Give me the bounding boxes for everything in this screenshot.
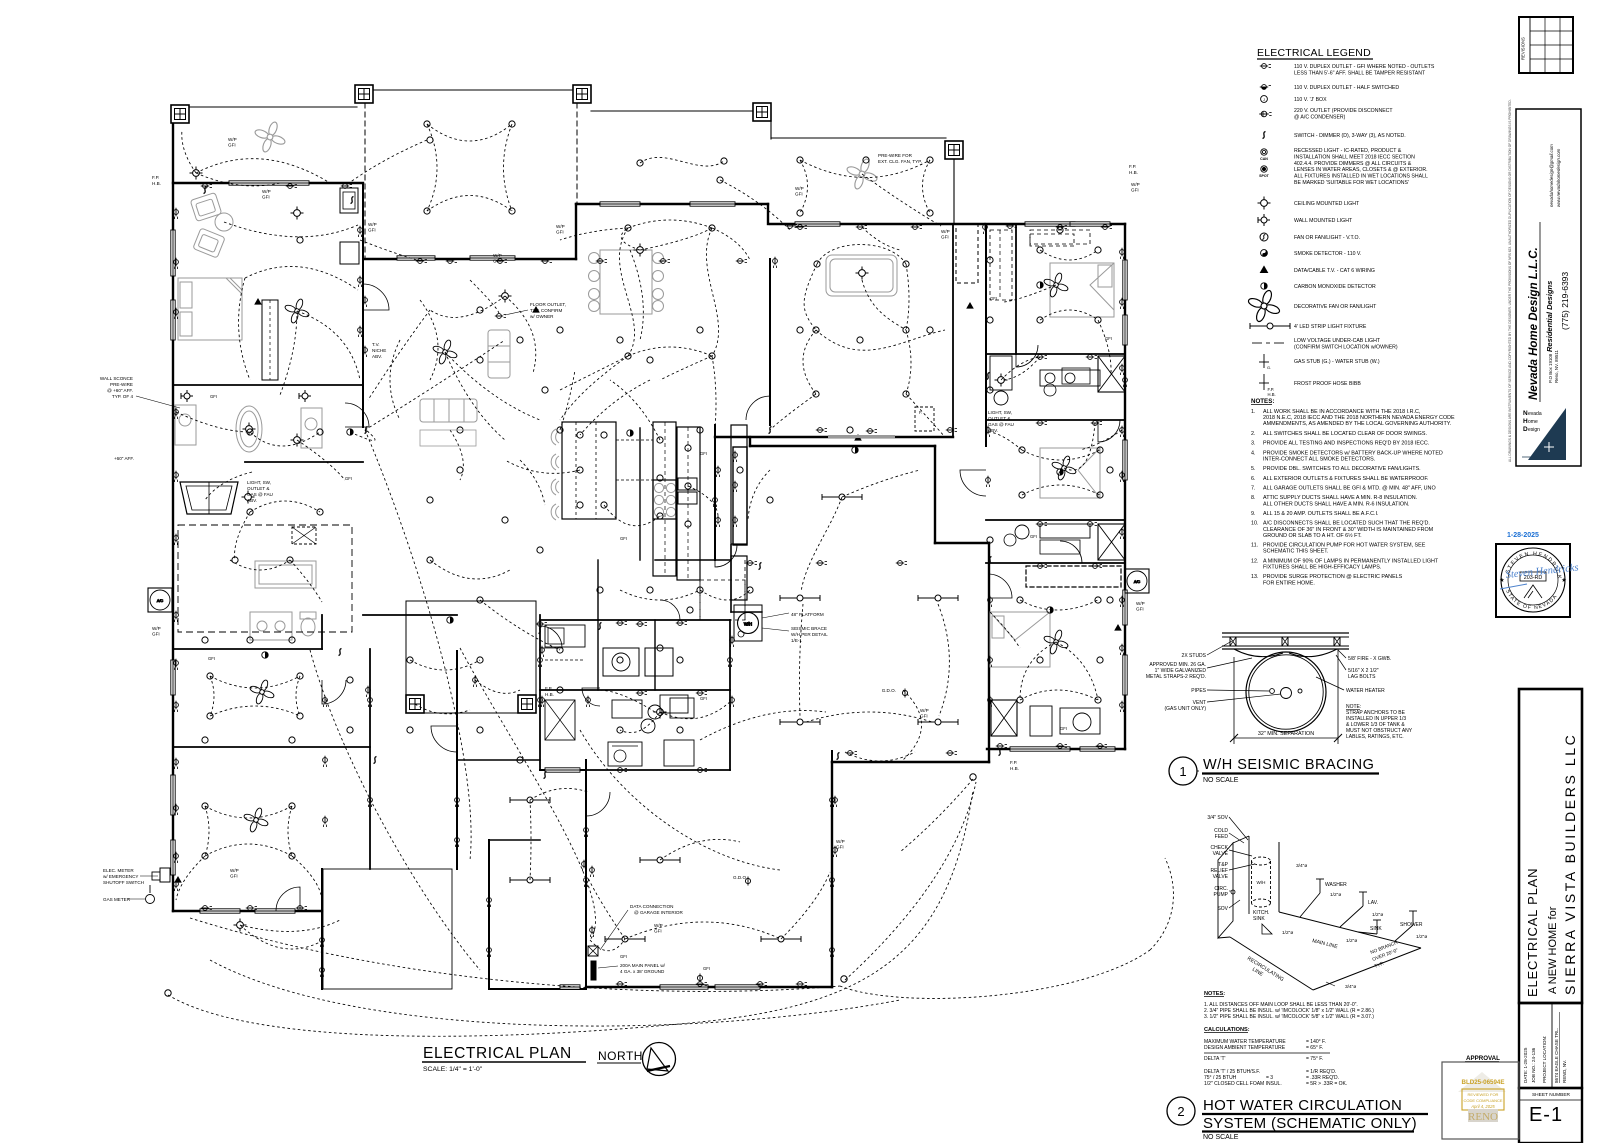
svg-text:W/P: W/P xyxy=(920,708,929,713)
svg-text:LIGHT, SW,: LIGHT, SW, xyxy=(247,480,271,485)
svg-text:W/P: W/P xyxy=(1131,182,1140,187)
svg-text:PUMP: PUMP xyxy=(1214,892,1229,898)
svg-text:J: J xyxy=(1263,97,1265,102)
svg-text:H.B.: H.B. xyxy=(1268,392,1276,397)
svg-text:W/H: W/H xyxy=(1257,880,1266,885)
svg-text:2X STUDS: 2X STUDS xyxy=(1182,653,1207,659)
svg-text:(GAS UNIT ONLY): (GAS UNIT ONLY) xyxy=(1165,706,1207,712)
svg-text:WALL SCONCE: WALL SCONCE xyxy=(100,376,133,381)
iso wall panels xyxy=(1218,843,1233,938)
svg-text:LABLES, RATINGS, ETC.: LABLES, RATINGS, ETC. xyxy=(1346,734,1404,740)
svg-text:F.P.: F.P. xyxy=(1010,760,1017,765)
stamp seal xyxy=(1496,544,1570,617)
svg-text:FROST PROOF HOSE BIBB: FROST PROOF HOSE BIBB xyxy=(1294,381,1361,387)
svg-text:AMMENDMENTS, AS AMENDED BY THE: AMMENDMENTS, AS AMENDED BY THE LOCAL GOV… xyxy=(1263,421,1451,427)
svg-text:ALL SWITCHES SHALL BE LOCATED: ALL SWITCHES SHALL BE LOCATED CLEAR OF D… xyxy=(1263,431,1427,437)
svg-text:GFI: GFI xyxy=(493,259,501,264)
decorative fans xyxy=(284,298,310,324)
ceiling lights xyxy=(190,167,203,180)
svg-text:LESS THAN 5'-6" AFF. SHALL BE: LESS THAN 5'-6" AFF. SHALL BE TAMPER RES… xyxy=(1294,70,1426,76)
svg-text:LAG BOLTS: LAG BOLTS xyxy=(1348,674,1376,680)
A/C units xyxy=(148,588,172,612)
svg-text:ELEC. METER: ELEC. METER xyxy=(103,868,134,873)
bar stools xyxy=(551,429,556,445)
svg-text:SHUTOFF SWITCH: SHUTOFF SWITCH xyxy=(103,880,144,885)
svg-text:CAN: CAN xyxy=(1260,157,1268,161)
detail 2 title xyxy=(1167,1097,1195,1125)
svg-text:W/P: W/P xyxy=(1136,601,1145,606)
svg-text:GFI: GFI xyxy=(1136,607,1144,612)
TV niche cabinet xyxy=(340,188,358,213)
laundry/bath internal detail xyxy=(545,625,585,647)
svg-text:3/4"ø: 3/4"ø xyxy=(1345,984,1356,990)
svg-text:esign: esign xyxy=(1528,427,1540,433)
recessed can lights xyxy=(424,121,430,127)
svg-text:FIXTURES SHALL BE HIGH-EFFICAC: FIXTURES SHALL BE HIGH-EFFICACY LAMPS. xyxy=(1263,565,1381,571)
svg-text:ELECTRICAL LEGEND: ELECTRICAL LEGEND xyxy=(1257,47,1371,59)
W/H circle + platform xyxy=(734,605,762,641)
svg-text:PROVIDE SMOKE DETECTORS w/ BAT: PROVIDE SMOKE DETECTORS w/ BATTERY BACK-… xyxy=(1263,450,1443,456)
svg-text:SCHEMATIC THIS SHEET.: SCHEMATIC THIS SHEET. xyxy=(1263,549,1328,555)
svg-text:A MINIMUM OF 90% OF LAMPS IN P: A MINIMUM OF 90% OF LAMPS IN PERMANENTLY… xyxy=(1263,558,1439,564)
svg-text:JOB NO.: 24-136: JOB NO.: 24-136 xyxy=(1531,1047,1536,1083)
svg-text:BLD25-06594E: BLD25-06594E xyxy=(1462,1079,1505,1086)
svg-text:1/2" CLOSED CELL FOAM INSUL.: 1/2" CLOSED CELL FOAM INSUL. xyxy=(1204,1081,1282,1087)
svg-text:Reno, NV. 89511: Reno, NV. 89511 xyxy=(1554,349,1559,383)
svg-text:SCALE: 1/4" = 1'-0": SCALE: 1/4" = 1'-0" xyxy=(423,1066,483,1073)
smoke detectors xyxy=(347,429,353,435)
svg-text:GFI: GFI xyxy=(654,929,662,934)
svg-text:W/P: W/P xyxy=(152,626,161,631)
north arrow xyxy=(643,1043,676,1076)
svg-text:GAS METER: GAS METER xyxy=(103,897,131,902)
NE bed xyxy=(1050,263,1114,317)
svg-text:(CONFIRM SWITCH LOCATION w/OWN: (CONFIRM SWITCH LOCATION w/OWNER) xyxy=(1294,344,1398,350)
svg-text:PROVIDE DBL. SWITCHES TO ALL D: PROVIDE DBL. SWITCHES TO ALL DECORATIVE … xyxy=(1263,466,1421,472)
svg-text:SHOWER: SHOWER xyxy=(1400,922,1423,928)
svg-text:ALL EXTERIOR OUTLETS & FIXTURE: ALL EXTERIOR OUTLETS & FIXTURES SHALL BE… xyxy=(1263,476,1429,482)
svg-text:ome: ome xyxy=(1528,419,1538,425)
svg-text:WASHER: WASHER xyxy=(1325,882,1347,888)
svg-text:PRE-WIRE FOR: PRE-WIRE FOR xyxy=(878,153,913,158)
svg-text:A/C: A/C xyxy=(157,599,164,603)
svg-text:LIGHT, SW,: LIGHT, SW, xyxy=(988,410,1012,415)
svg-text:P.O Box 19108: P.O Box 19108 xyxy=(1548,353,1553,383)
svg-text:GAS STUB (G.) - WATER STUB (W.: GAS STUB (G.) - WATER STUB (W.) xyxy=(1294,359,1380,365)
svg-text:W/P: W/P xyxy=(556,224,565,229)
svg-text:GFI: GFI xyxy=(620,536,627,541)
front entry door xyxy=(180,482,238,514)
svg-text:1/2"ø: 1/2"ø xyxy=(1282,930,1293,936)
extra outlets xyxy=(446,259,457,264)
svg-text:PROVIDE SURGE PROTECTION @ ELE: PROVIDE SURGE PROTECTION @ ELECTRIC PANE… xyxy=(1263,574,1403,580)
svg-text:SYSTEM (SCHEMATIC ONLY): SYSTEM (SCHEMATIC ONLY) xyxy=(1203,1115,1417,1132)
svg-text:GFI: GFI xyxy=(941,235,949,240)
svg-text:1/2"ø: 1/2"ø xyxy=(1346,938,1357,944)
svg-text:3.: 3. xyxy=(1251,441,1256,447)
svg-text:W/H SEISMIC BRACING: W/H SEISMIC BRACING xyxy=(1203,757,1374,773)
svg-text:W/H: W/H xyxy=(744,622,752,627)
svg-text:NOTES:: NOTES: xyxy=(1251,398,1274,405)
svg-text:CLEARANCE OF 36" IN FRONT & 30: CLEARANCE OF 36" IN FRONT & 30" WIDTH IS… xyxy=(1263,527,1434,533)
svg-text:5.: 5. xyxy=(1251,466,1256,472)
svg-text:ALL 15 & 20 AMP. OUTLETS SHALL: ALL 15 & 20 AMP. OUTLETS SHALL BE A.F.C.… xyxy=(1263,511,1378,517)
svg-text:PROVIDE ALL TESTING AND INSPEC: PROVIDE ALL TESTING AND INSPECTIONS REQ'… xyxy=(1263,441,1429,447)
svg-text:ALL GARAGE OUTLETS SHALL BE GF: ALL GARAGE OUTLETS SHALL BE GFI & MTD. @… xyxy=(1263,486,1436,492)
svg-text:220 V. OUTLET (PROVIDE DISCONN: 220 V. OUTLET (PROVIDE DISCONNECT xyxy=(1294,108,1393,114)
svg-text:1/E-1: 1/E-1 xyxy=(791,638,802,643)
svg-text:3/4"ø: 3/4"ø xyxy=(1296,863,1307,869)
svg-text:W/H PER DETAIL: W/H PER DETAIL xyxy=(791,632,828,637)
svg-text:GFI: GFI xyxy=(620,954,627,959)
svg-text:W/P: W/P xyxy=(836,839,845,844)
data triangles xyxy=(254,298,262,305)
great room rug/table xyxy=(420,430,476,446)
svg-text:GFI: GFI xyxy=(920,714,928,719)
ceiling joists xyxy=(1222,632,1349,634)
svg-text:DELTA 'T': DELTA 'T' xyxy=(1204,1056,1225,1062)
svg-text:ALL WORK SHALL BE IN ACCORDANC: ALL WORK SHALL BE IN ACCORDANCE WITH THE… xyxy=(1263,409,1421,415)
svg-text:W/P: W/P xyxy=(493,253,502,258)
svg-text:W/P: W/P xyxy=(368,222,377,227)
sitting chairs + table top-left xyxy=(190,193,222,222)
svg-text:SMOKE DETECTOR - 110 V.: SMOKE DETECTOR - 110 V. xyxy=(1294,251,1361,257)
svg-text:48" PLATFORM: 48" PLATFORM xyxy=(791,612,824,617)
svg-text:3/4" SOV: 3/4" SOV xyxy=(1207,815,1228,821)
svg-text:DECORATIVE FAN OR FAN/LIGHT: DECORATIVE FAN OR FAN/LIGHT xyxy=(1294,304,1377,310)
svg-text:NO SCALE: NO SCALE xyxy=(1203,777,1239,784)
svg-text:@ GARAGE INTERIOR: @ GARAGE INTERIOR xyxy=(634,910,684,915)
svg-text:NICHE: NICHE xyxy=(372,348,386,353)
svg-text:110 V. DUPLEX OUTLET - GFI WHE: 110 V. DUPLEX OUTLET - GFI WHERE NOTED -… xyxy=(1294,64,1435,70)
tub + fixtures left bath xyxy=(236,406,262,452)
svg-text:1/2"ø: 1/2"ø xyxy=(1416,934,1427,940)
more great room wires xyxy=(420,300,438,380)
entry closet dashed xyxy=(178,525,352,632)
svg-text:GFI: GFI xyxy=(262,195,270,200)
svg-text:F.: F. xyxy=(919,410,922,415)
master tub light xyxy=(243,423,256,436)
patio fan gray xyxy=(254,121,286,153)
svg-text:PROVIDE CIRCULATION PUMP FOR H: PROVIDE CIRCULATION PUMP FOR HOT WATER S… xyxy=(1263,543,1426,549)
svg-text:BE MARKED 'SUITABLE FOR WET LO: BE MARKED 'SUITABLE FOR WET LOCATIONS' xyxy=(1294,180,1409,186)
wire junction nodes xyxy=(970,774,976,780)
svg-text:110 V. 'J' BOX: 110 V. 'J' BOX xyxy=(1294,97,1327,103)
extra cans xyxy=(987,387,993,393)
svg-text:ALL FIXTURES INSTALLED IN WET: ALL FIXTURES INSTALLED IN WET LOCATIONS … xyxy=(1294,174,1428,180)
bedroom4 bed xyxy=(990,612,1050,667)
svg-text:RENO: RENO xyxy=(1468,1111,1498,1123)
svg-text:H.B.: H.B. xyxy=(152,181,161,186)
svg-text:SINK: SINK xyxy=(1370,926,1382,932)
svg-text:H.B.: H.B. xyxy=(1129,170,1138,175)
svg-text:RECESSED LIGHT - IC-RATED, PR: RECESSED LIGHT - IC-RATED, PRODUCT & xyxy=(1294,148,1402,154)
svg-text:= 65° F.: = 65° F. xyxy=(1306,1045,1323,1051)
svg-text:SINK: SINK xyxy=(1253,916,1265,922)
svg-text:OUTLET &: OUTLET & xyxy=(988,416,1010,421)
svg-text:2.: 2. xyxy=(1251,431,1256,437)
svg-text:G.: G. xyxy=(1267,365,1271,370)
svg-text:W/P: W/P xyxy=(262,189,271,194)
garage data + panel xyxy=(588,946,598,956)
svg-text:ALL OTHER DUCTS SHALL HAVE A M: ALL OTHER DUCTS SHALL HAVE A MIN. R-6 IN… xyxy=(1263,501,1409,507)
svg-text:NORTH: NORTH xyxy=(598,1049,643,1063)
svg-text:SWITCH - DIMMER (D), 3-WAY (3): SWITCH - DIMMER (D), 3-WAY (3), AS NOTED… xyxy=(1294,133,1406,139)
detail 1 title xyxy=(1169,757,1197,785)
svg-text:LOW VOLTAGE UNDER-CAB LIGHT: LOW VOLTAGE UNDER-CAB LIGHT xyxy=(1294,338,1381,344)
dim lines xyxy=(1233,657,1235,744)
gdo xyxy=(902,689,907,698)
svg-text:W/P: W/P xyxy=(228,137,237,142)
svg-text:LENSES IN WATER AREAS, CLOSETS: LENSES IN WATER AREAS, CLOSETS & @ EXTER… xyxy=(1294,167,1428,173)
duplex outlets along walls xyxy=(174,208,179,219)
svg-text:E-1: E-1 xyxy=(1529,1104,1563,1126)
svg-text:INSTALLATION SHALL MEET 2018 I: INSTALLATION SHALL MEET 2018 IECC SECTIO… xyxy=(1294,154,1415,160)
straps xyxy=(1234,649,1283,657)
svg-text:TYP. CONFIRM: TYP. CONFIRM xyxy=(530,308,563,313)
windows xyxy=(229,181,309,185)
svg-text:G.D.O.: G.D.O. xyxy=(882,688,896,693)
svg-text:April 4, 2025: April 4, 2025 xyxy=(1470,1104,1495,1109)
svg-text:EXT. CLG. FAN, TYP.: EXT. CLG. FAN, TYP. xyxy=(878,159,922,164)
extra wires xyxy=(365,340,505,430)
svg-text:GFI: GFI xyxy=(836,845,844,850)
svg-text:A/C: A/C xyxy=(1134,580,1141,584)
company box xyxy=(1516,109,1581,466)
svg-text:DATA CONNECTION: DATA CONNECTION xyxy=(630,904,673,909)
svg-text:W/P: W/P xyxy=(654,923,663,928)
svg-text:PRE-WIRE: PRE-WIRE xyxy=(110,382,133,387)
svg-text:METAL STRAPS-2 REQ'D.: METAL STRAPS-2 REQ'D. xyxy=(1146,674,1206,680)
svg-text:GFI: GFI xyxy=(700,451,707,456)
svg-text:APPROVAL: APPROVAL xyxy=(1466,1055,1500,1062)
project box xyxy=(1519,689,1582,1003)
svg-text:G.D.O.: G.D.O. xyxy=(733,875,747,880)
svg-text:13.: 13. xyxy=(1251,574,1259,580)
legend symbols xyxy=(1260,64,1271,69)
svg-text:A NEW HOME for: A NEW HOME for xyxy=(1547,906,1559,994)
svg-text:CALCULATIONS:: CALCULATIONS: xyxy=(1204,1027,1250,1033)
svg-text:8674 EAGLE CHASE TRL.: 8674 EAGLE CHASE TRL. xyxy=(1554,1028,1559,1083)
svg-text:SOV: SOV xyxy=(1217,906,1228,912)
kitchen range burners xyxy=(654,483,663,492)
svg-text:GFI: GFI xyxy=(795,192,803,197)
svg-text:FEED: FEED xyxy=(1215,834,1229,840)
svg-text:= 75° F.: = 75° F. xyxy=(1306,1056,1323,1062)
svg-text:W/P: W/P xyxy=(941,229,950,234)
svg-text:@ +60" AFF.: @ +60" AFF. xyxy=(107,388,133,393)
svg-text:W/P: W/P xyxy=(795,186,804,191)
svg-text:REVIEWED FOR: REVIEWED FOR xyxy=(1468,1092,1499,1097)
svg-text:GFI: GFI xyxy=(1060,726,1067,731)
svg-text:1/2"ø: 1/2"ø xyxy=(1372,912,1383,918)
svg-text:FOR ENTIRE HOME.: FOR ENTIRE HOME. xyxy=(1263,580,1315,586)
svg-text:T.V.: T.V. xyxy=(372,342,380,347)
svg-text:DATE: 1-28-2025: DATE: 1-28-2025 xyxy=(1523,1047,1528,1083)
master tray ceiling xyxy=(826,255,897,296)
bath fixtures bottom middle xyxy=(612,700,642,718)
svg-text:H.B.: H.B. xyxy=(545,692,554,697)
corridor outlets tandem xyxy=(733,451,738,462)
svg-text:www.nevadahomedesign.com: www.nevadahomedesign.com xyxy=(1556,148,1561,207)
master closet dashes xyxy=(990,230,1012,300)
svg-text:OUTLET &: OUTLET & xyxy=(247,486,269,491)
svg-text:INTER-CONNECT ALL SMOKE DETECT: INTER-CONNECT ALL SMOKE DETECTORS. xyxy=(1263,456,1375,462)
svg-text:ABV.: ABV. xyxy=(247,498,257,503)
water heater circle xyxy=(1246,652,1326,732)
svg-text:ELECTRICAL PLAN: ELECTRICAL PLAN xyxy=(1525,868,1540,997)
svg-text:10.: 10. xyxy=(1251,521,1259,527)
bedroom4 bath row xyxy=(991,700,1017,736)
right column extra fixtures xyxy=(1044,384,1056,396)
svg-text:nevadahomedesign@gmail.com: nevadahomedesign@gmail.com xyxy=(1549,144,1554,207)
svg-text:= 5R > .33R = OK.: = 5R > .33R = OK. xyxy=(1306,1081,1347,1087)
porch posts xyxy=(171,105,189,123)
svg-text:REVISIONS: REVISIONS xyxy=(1521,37,1526,60)
svg-text:VALVE: VALVE xyxy=(1213,851,1229,857)
svg-text:+60" AFF.: +60" AFF. xyxy=(114,456,134,461)
svg-text:(775) 219-6393: (775) 219-6393 xyxy=(1560,272,1570,330)
svg-text:PROJECT LOCATION:: PROJECT LOCATION: xyxy=(1542,1036,1547,1083)
master bath casework xyxy=(1040,370,1100,386)
interior walls xyxy=(173,384,363,386)
svg-text:NO SCALE: NO SCALE xyxy=(1203,1134,1239,1141)
svg-text:RENO, NV.: RENO, NV. xyxy=(1562,1060,1567,1083)
svg-text:FAN OR FAN/LIGHT - V.T.O.: FAN OR FAN/LIGHT - V.T.O. xyxy=(1294,235,1360,241)
svg-text:2: 2 xyxy=(1177,1104,1184,1119)
great room sofa xyxy=(420,399,477,422)
svg-text:H.B.: H.B. xyxy=(1010,766,1019,771)
svg-text:GFI: GFI xyxy=(703,966,710,971)
svg-text:F.P.: F.P. xyxy=(545,686,552,691)
revisions table xyxy=(1519,17,1573,73)
svg-text:402.4.4. PROVIDE DIMMERS @ AL: 402.4.4. PROVIDE DIMMERS @ ALL CIRCUITS … xyxy=(1294,161,1412,167)
svg-text:GFI: GFI xyxy=(228,143,236,148)
sheet box xyxy=(1519,1088,1582,1143)
svg-text:GFI: GFI xyxy=(1030,534,1037,539)
svg-text:WALL MOUNTED LIGHT: WALL MOUNTED LIGHT xyxy=(1294,218,1353,224)
door swing arcs xyxy=(363,284,389,310)
svg-text:PIPES: PIPES xyxy=(1191,688,1206,694)
svg-text:1-28-2025: 1-28-2025 xyxy=(1507,532,1539,539)
laundry appliances xyxy=(603,648,639,676)
svg-text:GFI: GFI xyxy=(700,696,707,701)
svg-text:GFI: GFI xyxy=(345,476,352,481)
svg-text:6.: 6. xyxy=(1251,476,1256,482)
kitchen counters xyxy=(653,422,676,576)
svg-text:200A MAIN PANEL w/: 200A MAIN PANEL w/ xyxy=(620,963,666,968)
svg-text:GAS @ FAU: GAS @ FAU xyxy=(247,492,273,497)
svg-text:GFI: GFI xyxy=(230,874,238,879)
svg-text:FLOOR OUTLET,: FLOOR OUTLET, xyxy=(530,302,566,307)
info box xyxy=(1519,1003,1582,1088)
svg-text:5/8' FIRE - X GWB.: 5/8' FIRE - X GWB. xyxy=(1348,656,1391,662)
svg-text:GFI: GFI xyxy=(152,632,160,637)
svg-text:F.P.: F.P. xyxy=(1129,164,1136,169)
svg-text:GAS @ FAU: GAS @ FAU xyxy=(988,422,1014,427)
svg-text:LAV.: LAV. xyxy=(1368,900,1378,906)
svg-text:Residential Designs: Residential Designs xyxy=(1545,281,1554,352)
svg-text:4 GA. x 38' GROUND: 4 GA. x 38' GROUND xyxy=(620,969,665,974)
svg-text:★: ★ xyxy=(1499,577,1504,584)
switches xyxy=(351,197,354,204)
svg-text:GFI: GFI xyxy=(556,230,564,235)
svg-text:DATA/CABLE T.V. - CAT 6 WIRING: DATA/CABLE T.V. - CAT 6 WIRING xyxy=(1294,268,1375,274)
svg-text:32" MIN. SEPARATION: 32" MIN. SEPARATION xyxy=(1258,731,1314,737)
svg-text:SHEET NUMBER: SHEET NUMBER xyxy=(1532,1092,1571,1098)
svg-text:DESIGN AMBIENT TEMPERATURE: DESIGN AMBIENT TEMPERATURE xyxy=(1204,1045,1286,1051)
svg-text:GFI: GFI xyxy=(208,656,215,661)
svg-text:GROUND OR SLAB TO A HT. OF 6½: GROUND OR SLAB TO A HT. OF 6½ FT. xyxy=(1263,532,1362,539)
wardrobe dash xyxy=(769,340,771,360)
elec meter / gas meter xyxy=(160,868,170,882)
svg-text:WATER HEATER: WATER HEATER xyxy=(1346,688,1385,694)
svg-text:110 V. DUPLEX OUTLET - HALF SW: 110 V. DUPLEX OUTLET - HALF SWITCHED xyxy=(1294,85,1399,91)
svg-text:1/2"ø: 1/2"ø xyxy=(1330,892,1341,898)
svg-text:VALVE: VALVE xyxy=(1213,874,1229,880)
svg-text:evada: evada xyxy=(1528,411,1542,417)
svg-text:F.P.: F.P. xyxy=(152,175,159,180)
W/H cylinder dashed xyxy=(1252,857,1271,865)
svg-text:w/ OWNER: w/ OWNER xyxy=(530,314,554,319)
svg-text:2018 N.E.C, 2018 IECC AND THE: 2018 N.E.C, 2018 IECC AND THE 2018 NORTH… xyxy=(1263,415,1455,421)
svg-text:CODE COMPLIANCE: CODE COMPLIANCE xyxy=(1463,1098,1502,1103)
dining table + chairs xyxy=(600,250,652,314)
svg-text:SEISMIC BRACE: SEISMIC BRACE xyxy=(791,626,827,631)
svg-text:GFI: GFI xyxy=(210,394,217,399)
svg-text:4' LED STRIP LIGHT FIXTURE: 4' LED STRIP LIGHT FIXTURE xyxy=(1294,324,1367,330)
svg-text:HOT WATER CIRCULATION: HOT WATER CIRCULATION xyxy=(1203,1097,1402,1114)
svg-text:8.: 8. xyxy=(1251,495,1256,501)
svg-text:4.: 4. xyxy=(1251,450,1256,456)
svg-text:11.: 11. xyxy=(1251,543,1258,549)
bedroom2 bed xyxy=(1040,448,1100,498)
risers and mains xyxy=(1278,842,1280,912)
svg-text:SPOT: SPOT xyxy=(1259,174,1270,178)
svg-text:ELECTRICAL PLAN: ELECTRICAL PLAN xyxy=(423,1045,572,1062)
svg-text:W/P: W/P xyxy=(230,868,239,873)
svg-text:CARBON MONOXIDE DETECTOR: CARBON MONOXIDE DETECTOR xyxy=(1294,284,1376,290)
svg-text:7.: 7. xyxy=(1251,486,1256,492)
svg-text:12.: 12. xyxy=(1251,558,1259,564)
svg-text:ALL DRAWINGS & DESIGNS ARE INS: ALL DRAWINGS & DESIGNS ARE INSTRUMENTS O… xyxy=(1508,99,1512,462)
svg-text:GFI: GFI xyxy=(1131,188,1139,193)
svg-text:ABV.: ABV. xyxy=(372,354,382,359)
svg-text:3. 1/2" PIPE SHALL BE INSUL.: 3. 1/2" PIPE SHALL BE INSUL. w/ 'IMCOLOC… xyxy=(1204,1014,1374,1020)
svg-text:9.: 9. xyxy=(1251,511,1256,517)
svg-text:NOTES:: NOTES: xyxy=(1204,991,1225,997)
bed master xyxy=(178,278,242,340)
kitchen extra dashes xyxy=(699,560,701,620)
svg-text:SIERRA VISTA BUILDERS LLC: SIERRA VISTA BUILDERS LLC xyxy=(1562,733,1578,995)
svg-text:ATTIC SUPPLY DUCTS SHALL HAVE: ATTIC SUPPLY DUCTS SHALL HAVE A MIN. R-8… xyxy=(1263,495,1417,501)
svg-text:Nevada Home Design L.L.C.: Nevada Home Design L.L.C. xyxy=(1528,247,1540,400)
svg-text:1: 1 xyxy=(1179,764,1186,779)
svg-text:★: ★ xyxy=(1561,577,1566,584)
strip lights garage xyxy=(605,936,645,942)
svg-text:@ A/C CONDENSER): @ A/C CONDENSER) xyxy=(1294,114,1346,120)
kitchen island xyxy=(562,422,616,519)
svg-text:1.: 1. xyxy=(1251,409,1256,415)
svg-text:GFI: GFI xyxy=(368,228,376,233)
svg-text:TYP. OF 4: TYP. OF 4 xyxy=(112,394,134,399)
svg-text:w/ EMERGENCY: w/ EMERGENCY xyxy=(103,874,138,879)
svg-text:CEILING MOUNTED LIGHT: CEILING MOUNTED LIGHT xyxy=(1294,201,1360,207)
svg-text:A/C DISCONNECTS SHALL BE LOCAT: A/C DISCONNECTS SHALL BE LOCATED SUCH TH… xyxy=(1263,521,1430,527)
wire xyxy=(172,121,174,911)
